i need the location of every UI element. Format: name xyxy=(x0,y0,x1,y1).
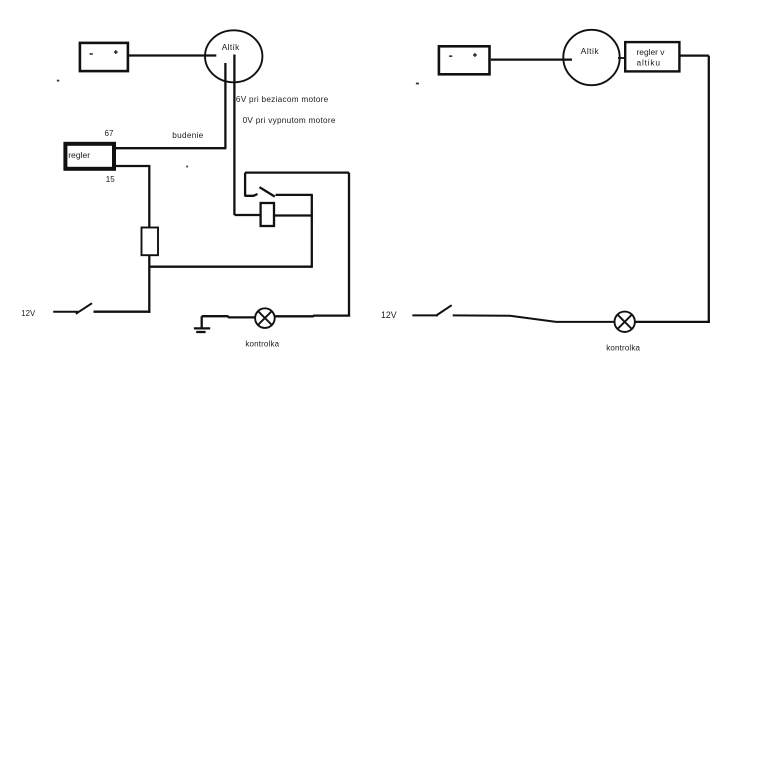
wire lamp to right drop (right) xyxy=(635,321,710,323)
wire switch to lamp (right, sloped) xyxy=(453,315,615,322)
wire battery B1 to alternator xyxy=(129,54,217,56)
wire vertical relay contact output xyxy=(311,195,313,268)
battery B2 plus label xyxy=(473,53,477,57)
wire relay coil to contact output xyxy=(274,214,313,216)
wire alternator to regulator box xyxy=(618,57,625,59)
svg-text:kontrolka: kontrolka xyxy=(606,343,640,352)
wire ground to lamp xyxy=(202,316,256,317)
switch S2 blade (right) xyxy=(436,305,452,315)
svg-text:67: 67 xyxy=(105,129,114,138)
wire vertical down to relay fixed contact xyxy=(244,173,246,197)
wire switch to resistor branch xyxy=(94,311,151,313)
wire terminal 67 to budenie line xyxy=(116,147,226,149)
svg-text:altiku: altiku xyxy=(637,58,661,68)
battery B1 minus label xyxy=(90,53,93,55)
regulator box "regler" xyxy=(65,144,114,169)
svg-text:Altík: Altík xyxy=(222,42,240,52)
wire vertical down to resistor xyxy=(148,166,150,229)
wire: output vertical from alternator to relay coil xyxy=(233,55,235,216)
wire top feed of relay contact xyxy=(245,171,349,173)
wire battery B2 to alternator xyxy=(491,58,572,60)
relay fixed contact (left) xyxy=(245,194,257,196)
wire 12V feed (right) xyxy=(412,314,438,316)
svg-text:6V pri beziacom motore: 6V pri beziacom motore xyxy=(236,95,329,104)
alternator circle "Altík" (left) xyxy=(205,30,262,82)
wire resistor to 12V switch line xyxy=(148,255,150,313)
wire 12V feed (left) xyxy=(53,311,78,313)
ground symbol xyxy=(194,316,210,332)
resistor R1 xyxy=(142,228,159,256)
speck artifact 2 xyxy=(416,83,419,85)
speck artifact 1 xyxy=(57,80,59,82)
lamp "kontrolka" (left) xyxy=(255,308,275,328)
svg-text:Altik: Altik xyxy=(581,46,600,56)
battery B2 (right diagram) xyxy=(439,46,490,74)
svg-text:kontrolka: kontrolka xyxy=(245,340,279,349)
wire alternator output to relay coil xyxy=(234,214,260,216)
svg-text:12V: 12V xyxy=(21,309,36,318)
svg-text:budenie: budenie xyxy=(172,131,203,140)
svg-text:0V pri vypnutom motore: 0V pri vypnutom motore xyxy=(243,116,336,125)
wire right drop to kontrolka line xyxy=(348,173,350,317)
wire terminal 15 to resistor branch xyxy=(116,165,150,167)
wire horizontal to relay contact output xyxy=(149,266,311,268)
battery B1 (left diagram) xyxy=(80,43,128,71)
relay switch blade xyxy=(260,187,275,196)
regulator box "regler v altiku" xyxy=(625,42,679,71)
speck artifact 3 xyxy=(186,166,188,168)
svg-text:regler: regler xyxy=(68,150,90,160)
relay coil K1 xyxy=(261,203,274,226)
wire lamp to right drop xyxy=(274,314,350,317)
wire regulator box to right drop xyxy=(681,54,709,56)
svg-text:15: 15 xyxy=(106,175,115,184)
relay contact wire (right) xyxy=(276,194,313,196)
switch S1 blade (left) xyxy=(76,303,92,314)
wire right drop to kontrolka (right) xyxy=(708,56,710,323)
svg-text:regler v: regler v xyxy=(637,47,666,57)
svg-text:12V: 12V xyxy=(381,310,397,320)
battery B1 plus label xyxy=(114,50,118,54)
wire: budenie vertical from alternator xyxy=(224,63,226,148)
battery B2 minus label xyxy=(449,55,452,57)
alternator circle "Altik" (right) xyxy=(563,30,619,85)
lamp "kontrolka" (right) xyxy=(615,312,635,332)
